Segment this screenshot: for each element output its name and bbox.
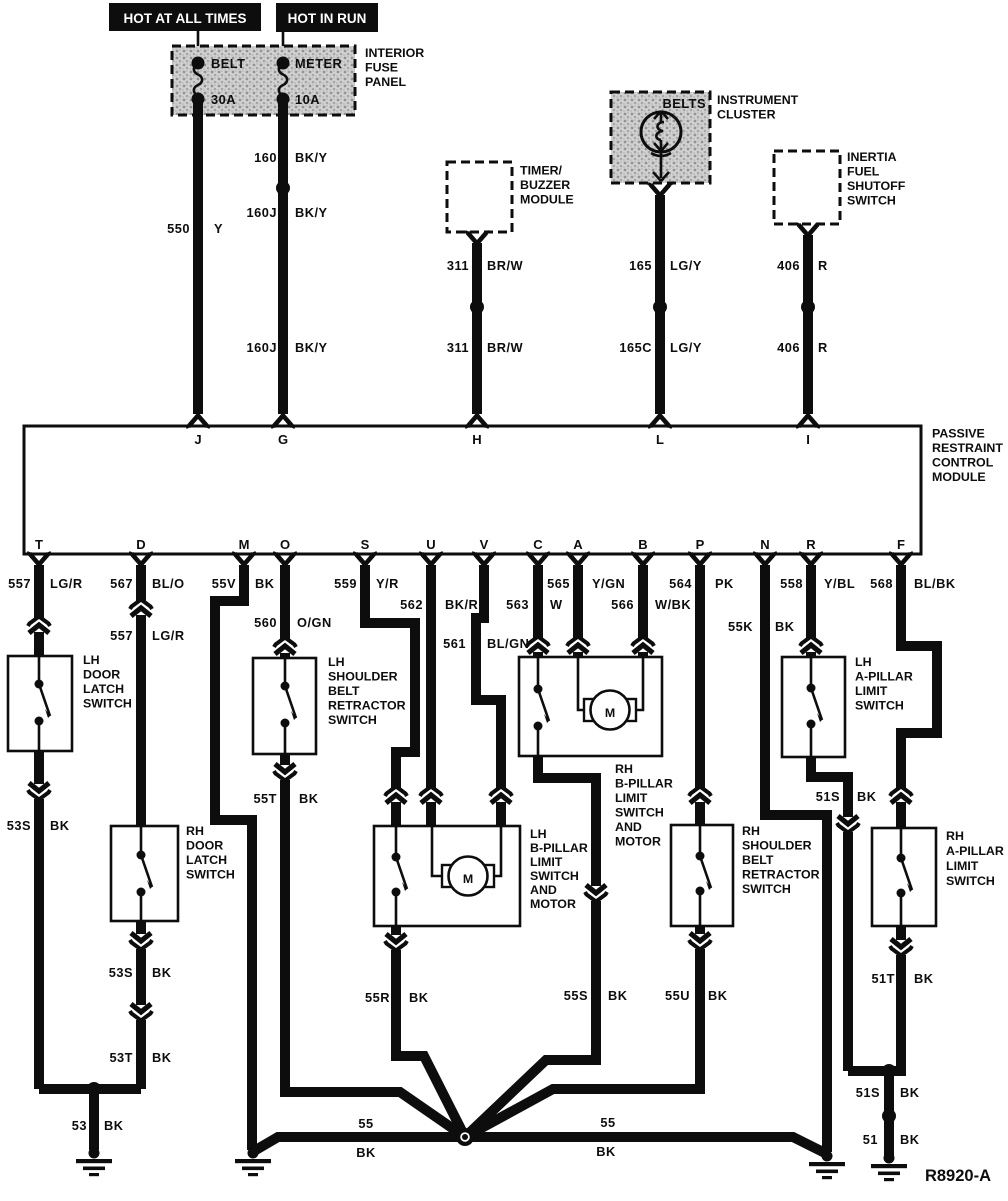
module pin M (232, 537, 256, 565)
svg-text:BK/Y: BK/Y (295, 205, 328, 220)
module pin N (753, 537, 777, 565)
module pin O (273, 537, 297, 565)
fuse BELT 30A (192, 56, 246, 107)
svg-text:559: 559 (334, 576, 357, 591)
svg-text:H: H (472, 432, 481, 447)
svg-text:T: T (35, 537, 43, 552)
svg-text:B-PILLAR: B-PILLAR (530, 841, 588, 855)
svg-text:R: R (818, 258, 828, 273)
inline connector on wire 562 U (420, 787, 442, 804)
svg-text:BK: BK (708, 988, 728, 1003)
svg-text:LH: LH (530, 827, 547, 841)
svg-text:55V: 55V (212, 576, 236, 591)
svg-text:SWITCH: SWITCH (186, 868, 235, 882)
svg-text:BK: BK (900, 1085, 920, 1100)
svg-text:563: 563 (506, 597, 529, 612)
svg-text:561: 561 (443, 636, 466, 651)
svg-text:BK: BK (356, 1145, 376, 1160)
svg-text:550: 550 (167, 221, 190, 236)
svg-text:RH: RH (615, 762, 633, 776)
connector fork at timer/buzzer output (465, 232, 489, 244)
svg-text:Y/BL: Y/BL (824, 576, 855, 591)
module pin T (27, 537, 51, 565)
svg-text:564: 564 (669, 576, 692, 591)
svg-text:LH: LH (855, 655, 872, 669)
inline connector on wire 559 S (385, 787, 407, 804)
power tag HOT AT ALL TIMES (109, 3, 261, 31)
inline connector on wire 55R (385, 934, 407, 951)
inline connector on wire 568 F (890, 787, 912, 804)
wire 559 Y/R pin S to LH B-pillar switch (334, 565, 415, 827)
svg-text:55T: 55T (253, 791, 277, 806)
wire 55V BK pin M to left ground run (212, 565, 275, 1150)
svg-text:BK: BK (152, 1050, 172, 1065)
svg-text:SHOULDER: SHOULDER (328, 670, 398, 684)
power tag HOT IN RUN (276, 3, 378, 32)
svg-text:M: M (239, 537, 250, 552)
inline connector on wire 55U (689, 933, 711, 950)
svg-text:311: 311 (447, 258, 469, 273)
splice on wire 160 (276, 181, 290, 195)
svg-text:55S: 55S (564, 988, 588, 1003)
svg-text:160J: 160J (247, 205, 277, 220)
connector fork at instrument cluster output (648, 184, 672, 196)
svg-text:RH: RH (186, 824, 204, 838)
svg-text:LIMIT: LIMIT (530, 855, 563, 869)
svg-text:BR/W: BR/W (487, 258, 524, 273)
wire 565 Y/GN pin A to RH B-pillar motor (547, 565, 625, 658)
svg-text:55R: 55R (365, 990, 390, 1005)
wire 55U BK below RH shoulder retractor to junction (465, 926, 728, 1137)
svg-text:MOTOR: MOTOR (615, 835, 661, 849)
svg-text:HOT IN RUN: HOT IN RUN (288, 11, 367, 26)
svg-text:568: 568 (870, 576, 893, 591)
wire 53S/53T BK below RH door latch switch (109, 921, 172, 1089)
svg-text:LG/R: LG/R (152, 628, 185, 643)
wire 567/557 pin D to RH door latch switch (110, 565, 184, 827)
svg-text:562: 562 (400, 597, 423, 612)
inline connector on wire 53S D upper (130, 933, 152, 950)
svg-text:SHOULDER: SHOULDER (742, 839, 812, 853)
svg-text:SWITCH: SWITCH (946, 874, 995, 888)
svg-text:MOTOR: MOTOR (530, 897, 576, 911)
svg-text:30A: 30A (211, 92, 236, 107)
svg-text:51: 51 (863, 1132, 878, 1147)
svg-text:311: 311 (447, 340, 469, 355)
svg-text:S: S (361, 537, 370, 552)
svg-text:D: D (136, 537, 145, 552)
inertia fuel shutoff switch box (774, 150, 906, 224)
svg-text:R8920-A: R8920-A (925, 1167, 991, 1185)
svg-text:A: A (573, 537, 583, 552)
svg-text:PK: PK (715, 576, 734, 591)
svg-text:RH: RH (946, 829, 964, 843)
splice on wire 311 (470, 300, 484, 314)
svg-text:BK: BK (914, 971, 934, 986)
svg-text:RETRACTOR: RETRACTOR (328, 699, 406, 713)
module pin L (648, 416, 672, 448)
svg-text:PANEL: PANEL (365, 75, 407, 89)
svg-text:160: 160 (254, 150, 277, 165)
svg-text:BL/O: BL/O (152, 576, 185, 591)
svg-text:55: 55 (600, 1115, 615, 1130)
svg-text:51S: 51S (816, 789, 840, 804)
inline connector on wire 564 P (689, 787, 711, 804)
svg-text:53: 53 (72, 1118, 87, 1133)
svg-text:U: U (426, 537, 435, 552)
wire 558 Y/BL pin R to LH A-pillar limit switch (780, 565, 855, 658)
svg-text:P: P (696, 537, 705, 552)
inline connector on wire 563 C (527, 637, 549, 654)
svg-text:LIMIT: LIMIT (946, 859, 979, 873)
svg-text:51S: 51S (856, 1085, 880, 1100)
svg-text:558: 558 (780, 576, 803, 591)
svg-text:BK: BK (857, 789, 877, 804)
svg-text:METER: METER (295, 56, 342, 71)
wire 560 O/GN pin O to LH shoulder belt retractor switch (254, 565, 332, 659)
svg-text:LG/Y: LG/Y (670, 340, 702, 355)
inline connector on wire 51S (837, 816, 859, 833)
svg-text:B: B (638, 537, 647, 552)
svg-text:I: I (806, 432, 810, 447)
svg-text:BUZZER: BUZZER (520, 178, 570, 192)
wire 406 R inertia switch to module pin I (777, 235, 828, 414)
svg-text:BK/Y: BK/Y (295, 150, 328, 165)
inline connector on wire 560 O (274, 638, 296, 655)
module pin F (889, 537, 913, 565)
svg-text:560: 560 (254, 615, 277, 630)
wire 566 W/BK pin B to RH B-pillar motor (611, 565, 691, 658)
svg-text:A-PILLAR: A-PILLAR (855, 670, 913, 684)
svg-text:406: 406 (777, 258, 800, 273)
LH A-pillar limit switch S5 (782, 655, 913, 757)
svg-text:BELT: BELT (742, 853, 774, 867)
wire from HOT AT ALL TIMES to fuse BELT (197, 29, 200, 63)
svg-text:DOOR: DOOR (186, 839, 223, 853)
svg-text:10A: 10A (295, 92, 320, 107)
svg-text:O: O (280, 537, 290, 552)
RH door latch switch S2 (111, 824, 235, 921)
module pin G (271, 416, 295, 448)
inline connector on wire 561 V (490, 787, 512, 804)
wire 55K BK pin N to right ground (728, 565, 827, 1152)
svg-text:CONTROL: CONTROL (932, 456, 994, 470)
RH B-pillar limit switch and motor assembly (519, 657, 673, 849)
svg-text:LG/Y: LG/Y (670, 258, 702, 273)
wire from HOT IN RUN to fuse METER (282, 29, 285, 63)
svg-text:406: 406 (777, 340, 800, 355)
wire 562 BK/R pin U to LH B-pillar motor (400, 565, 478, 827)
svg-text:567: 567 (110, 576, 133, 591)
ground G3 right for wire 55K (809, 1151, 845, 1180)
module pin D (129, 537, 153, 565)
wire 53S BK below LH door latch switch (7, 751, 70, 1089)
inline connector on wire 55S (585, 885, 607, 902)
svg-text:SWITCH: SWITCH (530, 869, 579, 883)
svg-text:BK: BK (596, 1144, 616, 1159)
svg-text:LATCH: LATCH (83, 682, 124, 696)
svg-text:F: F (897, 537, 905, 552)
svg-text:SHUTOFF: SHUTOFF (847, 179, 906, 193)
svg-text:BL/GN: BL/GN (487, 636, 529, 651)
svg-text:INSTRUMENT: INSTRUMENT (717, 93, 799, 107)
wire 557 LG/R pin T to LH door latch switch (8, 565, 82, 657)
interior fuse panel box (172, 46, 424, 115)
svg-text:R: R (806, 537, 816, 552)
wire 165 LG/Y cluster to module pin L (619, 195, 701, 414)
ground G4 for wire 51 (871, 1153, 907, 1182)
svg-text:SWITCH: SWITCH (83, 697, 132, 711)
wire 160 / 160J BK/Y fuse METER to module pin G (247, 100, 328, 414)
svg-text:557: 557 (8, 576, 31, 591)
RH A-pillar limit switch S6 (872, 828, 1004, 926)
inline connector on wire 51T (890, 939, 912, 956)
LH door latch switch S1 (8, 653, 132, 751)
RH shoulder belt retractor switch S4 (671, 824, 820, 926)
svg-text:55K: 55K (728, 619, 753, 634)
svg-text:RH: RH (742, 824, 760, 838)
svg-text:PASSIVE: PASSIVE (932, 427, 985, 441)
svg-text:BELT: BELT (211, 56, 245, 71)
BELTS indicator bulb (641, 111, 681, 181)
passive restraint control module U1 (24, 426, 1003, 554)
svg-text:55U: 55U (665, 988, 690, 1003)
svg-text:B-PILLAR: B-PILLAR (615, 777, 673, 791)
svg-text:BELTS: BELTS (663, 96, 707, 111)
svg-text:BL/BK: BL/BK (914, 576, 956, 591)
svg-text:W/BK: W/BK (655, 597, 691, 612)
module pin I (796, 416, 820, 448)
inline connector on wire 53S T (28, 783, 50, 800)
inline connector on wire 558 R (800, 637, 822, 654)
svg-text:LG/R: LG/R (50, 576, 83, 591)
wire 561 BL/GN pin V to LH B-pillar motor (443, 565, 529, 827)
svg-text:INTERIOR: INTERIOR (365, 46, 424, 60)
svg-text:N: N (760, 537, 769, 552)
splice on wire 165 (653, 300, 667, 314)
svg-text:LATCH: LATCH (186, 853, 227, 867)
svg-text:BK: BK (608, 988, 628, 1003)
svg-text:SWITCH: SWITCH (328, 713, 377, 727)
inline connector on wire 53T D lower (130, 1004, 152, 1021)
svg-text:A-PILLAR: A-PILLAR (946, 844, 1004, 858)
module pin H (465, 416, 489, 448)
inline connector on wire 567 D (130, 600, 152, 617)
svg-text:LH: LH (328, 655, 345, 669)
wire 51S BK below LH A-pillar switch (811, 757, 877, 1071)
svg-text:MODULE: MODULE (520, 193, 574, 207)
svg-text:53T: 53T (109, 1050, 133, 1065)
svg-text:CLUSTER: CLUSTER (717, 108, 776, 122)
svg-text:AND: AND (615, 820, 642, 834)
svg-text:BELT: BELT (328, 684, 360, 698)
svg-text:AND: AND (530, 883, 557, 897)
wire 550 Y fuse BELT to module pin J (167, 100, 223, 414)
svg-text:53S: 53S (109, 965, 133, 980)
svg-text:TIMER/: TIMER/ (520, 164, 563, 178)
svg-text:BK: BK (900, 1132, 920, 1147)
svg-text:O/GN: O/GN (297, 615, 332, 630)
svg-text:L: L (656, 432, 664, 447)
module pin R (799, 537, 823, 565)
svg-text:MODULE: MODULE (932, 470, 986, 484)
module pin S (353, 537, 377, 565)
module pin A (566, 537, 590, 565)
svg-text:M: M (463, 872, 473, 886)
wire 55 BK main ground bus (254, 1115, 827, 1160)
svg-text:165: 165 (629, 258, 652, 273)
svg-text:R: R (818, 340, 828, 355)
timer/buzzer module box (447, 162, 574, 232)
svg-text:V: V (480, 537, 489, 552)
svg-text:SWITCH: SWITCH (855, 699, 904, 713)
LH B-pillar limit switch and motor assembly (374, 826, 588, 926)
svg-text:BK: BK (255, 576, 275, 591)
wire 53 horizontal run to ground (39, 1082, 141, 1150)
module pin J (186, 416, 210, 448)
wire 563 W pin C to RH B-pillar switch (506, 565, 563, 658)
svg-text:566: 566 (611, 597, 634, 612)
connector fork at inertia switch output (796, 224, 820, 236)
svg-text:RETRACTOR: RETRACTOR (742, 868, 820, 882)
svg-text:BR/W: BR/W (487, 340, 524, 355)
wire 55R BK below LH B-pillar to junction (365, 926, 465, 1137)
ground G1 for wire 53 (76, 1148, 112, 1177)
svg-text:565: 565 (547, 576, 570, 591)
svg-text:INERTIA: INERTIA (847, 150, 897, 164)
svg-text:557: 557 (110, 628, 133, 643)
wire 568 BL/BK pin F to RH A-pillar limit switch (870, 565, 956, 829)
inline connector on wire 566 B (632, 637, 654, 654)
svg-text:SWITCH: SWITCH (615, 806, 664, 820)
wire 51 junction bar (848, 1064, 920, 1157)
LH shoulder belt retractor switch S3 (253, 655, 406, 754)
svg-text:BK: BK (409, 990, 429, 1005)
svg-text:Y/GN: Y/GN (592, 576, 625, 591)
svg-text:W: W (550, 597, 563, 612)
splice on wire 406 (801, 300, 815, 314)
inline connector on wire 565 A (567, 637, 589, 654)
svg-text:BK: BK (104, 1118, 124, 1133)
svg-text:RESTRAINT: RESTRAINT (932, 441, 1003, 455)
svg-text:53S: 53S (7, 818, 31, 833)
svg-text:LIMIT: LIMIT (615, 791, 648, 805)
module pin C (526, 537, 550, 565)
svg-text:Y: Y (214, 221, 223, 236)
svg-text:Y/R: Y/R (376, 576, 399, 591)
svg-text:BK/Y: BK/Y (295, 340, 328, 355)
svg-text:HOT AT ALL TIMES: HOT AT ALL TIMES (124, 11, 247, 26)
svg-text:55: 55 (358, 1116, 373, 1131)
instrument cluster box (611, 92, 799, 183)
inline connector on wire 557 T (28, 617, 50, 634)
wire 311 BR/W timer/buzzer to module pin H (447, 243, 524, 414)
svg-text:SWITCH: SWITCH (847, 194, 896, 208)
inline connector on wire 55T O (274, 764, 296, 781)
svg-text:BK: BK (152, 965, 172, 980)
wire 564 PK pin P to RH shoulder belt retractor switch (669, 565, 734, 826)
svg-text:51T: 51T (871, 971, 895, 986)
svg-text:LH: LH (83, 653, 100, 667)
ground G2 left for wire 55V (235, 1148, 271, 1177)
svg-text:SWITCH: SWITCH (742, 882, 791, 896)
fuse METER 10A (277, 56, 343, 107)
svg-text:G: G (278, 432, 288, 447)
module pin P (688, 537, 712, 565)
svg-text:C: C (533, 537, 543, 552)
svg-text:165C: 165C (619, 340, 652, 355)
svg-text:M: M (605, 706, 615, 720)
module pin U (419, 537, 443, 565)
module pin V (472, 537, 496, 565)
svg-text:FUEL: FUEL (847, 165, 880, 179)
junction splice of ground bus 55 (456, 1128, 474, 1146)
svg-text:DOOR: DOOR (83, 668, 120, 682)
svg-text:FUSE: FUSE (365, 61, 398, 75)
svg-text:LIMIT: LIMIT (855, 684, 888, 698)
svg-text:BK/R: BK/R (445, 597, 478, 612)
svg-text:160J: 160J (247, 340, 277, 355)
svg-text:J: J (194, 432, 201, 447)
svg-text:BK: BK (299, 791, 319, 806)
module pin B (631, 537, 655, 565)
wire 51T BK below RH A-pillar switch (871, 926, 933, 1066)
svg-text:BK: BK (775, 619, 795, 634)
wire 55S BK below RH B-pillar to junction (465, 756, 628, 1137)
wire 55T BK below LH shoulder retractor to junction (253, 754, 465, 1137)
svg-text:BK: BK (50, 818, 70, 833)
